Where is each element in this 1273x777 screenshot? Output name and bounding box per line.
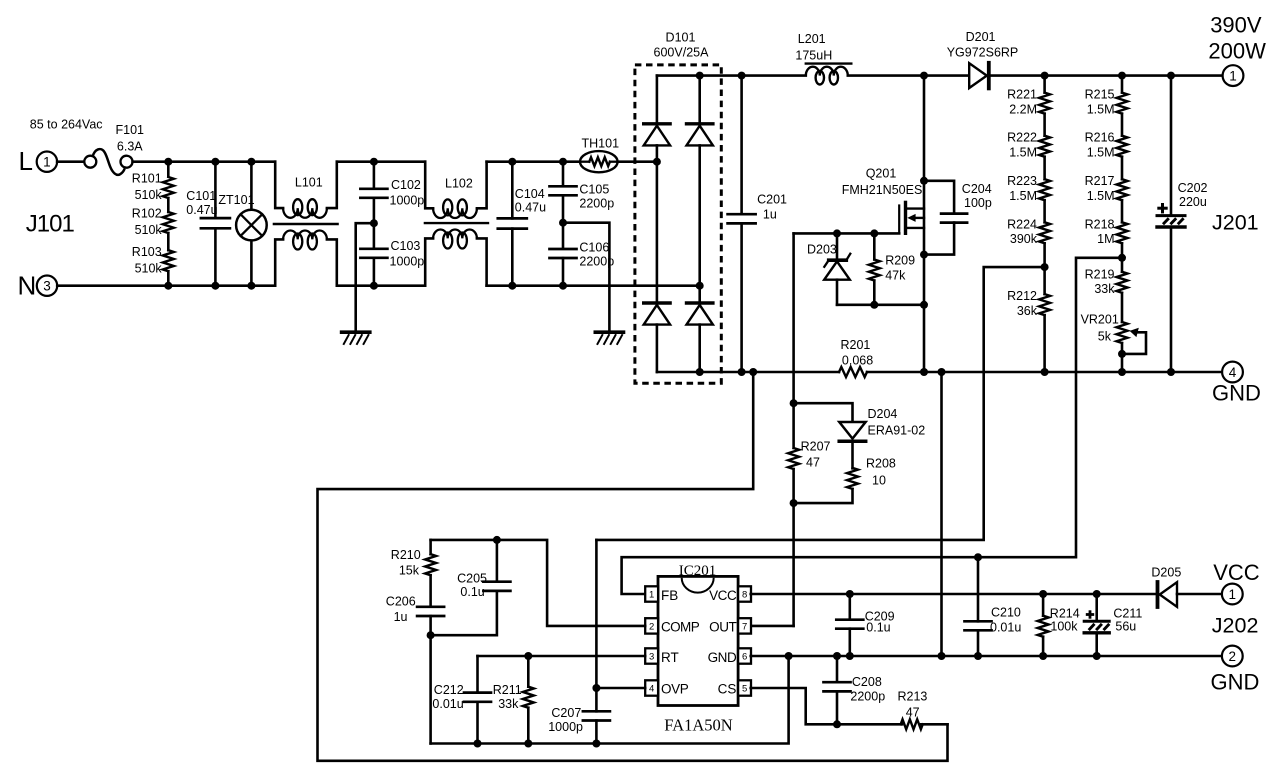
wire	[792, 233, 795, 448]
resistor R215	[1121, 76, 1124, 93]
capacitor C207	[595, 540, 598, 711]
IC pin 5 CS	[738, 680, 751, 695]
node	[833, 652, 841, 660]
svg-text:8: 8	[742, 589, 747, 600]
resistor R101	[167, 162, 170, 177]
svg-text:N: N	[18, 271, 37, 301]
svg-text:ZT101: ZT101	[218, 193, 254, 207]
IC pin 8 VCC	[738, 586, 751, 601]
svg-text:R223: R223	[1007, 174, 1037, 188]
svg-text:D205: D205	[1151, 566, 1181, 580]
svg-text:5: 5	[742, 683, 747, 694]
diode D101b	[687, 122, 713, 125]
wire	[656, 325, 659, 372]
node	[920, 251, 928, 259]
svg-text:1.5M: 1.5M	[1087, 102, 1115, 116]
svg-text:D203: D203	[807, 243, 837, 257]
svg-text:1000p: 1000p	[390, 194, 425, 208]
wire CS	[751, 688, 902, 724]
node	[920, 301, 928, 309]
wire	[698, 145, 701, 301]
svg-text:Q201: Q201	[866, 167, 897, 181]
svg-text:0.1u: 0.1u	[866, 620, 890, 634]
svg-text:0.01u: 0.01u	[432, 697, 463, 711]
svg-text:175uH: 175uH	[795, 49, 832, 63]
wire	[698, 76, 701, 123]
svg-text:0.01u: 0.01u	[990, 621, 1021, 635]
diode D101d	[687, 301, 713, 304]
node	[1118, 368, 1126, 376]
diode D101c	[644, 301, 670, 304]
node	[785, 652, 793, 660]
terminal J202 pin 2	[1222, 646, 1243, 667]
svg-text:R101: R101	[132, 172, 162, 186]
resistor R208	[847, 468, 858, 489]
svg-text:YG972S6RP: YG972S6RP	[947, 46, 1019, 60]
svg-text:OVP: OVP	[661, 681, 689, 696]
svg-text:C212: C212	[434, 683, 464, 697]
wire	[1121, 293, 1124, 322]
svg-text:J101: J101	[26, 211, 75, 238]
svg-text:15k: 15k	[399, 564, 420, 578]
capacitor C205	[496, 540, 499, 582]
node	[696, 368, 704, 376]
svg-text:C103: C103	[391, 239, 421, 253]
wire gate	[794, 232, 900, 235]
wire	[657, 74, 806, 77]
svg-text:C206: C206	[386, 594, 416, 608]
svg-text:0.1u: 0.1u	[460, 585, 484, 599]
capacitor C201	[740, 76, 743, 215]
node	[592, 684, 600, 692]
svg-text:R201: R201	[841, 338, 871, 352]
svg-text:47k: 47k	[885, 268, 906, 282]
potentiometer VR201	[1117, 322, 1128, 343]
capacitor C106	[550, 248, 577, 251]
svg-text:33k: 33k	[498, 697, 519, 711]
diode D101a	[644, 122, 670, 125]
wire	[57, 284, 275, 287]
diode D205	[1160, 582, 1177, 607]
IC pin 2 COMP	[645, 618, 658, 633]
wire GND pin	[751, 655, 1223, 658]
svg-text:1.5M: 1.5M	[1087, 189, 1115, 203]
svg-text:ERA91-02: ERA91-02	[868, 424, 926, 438]
svg-text:R221: R221	[1007, 88, 1037, 102]
svg-text:1.5M: 1.5M	[1009, 189, 1037, 203]
terminal J101 pin 1	[37, 152, 57, 172]
node	[427, 631, 435, 639]
svg-text:D204: D204	[868, 407, 898, 421]
svg-text:390k: 390k	[1010, 232, 1038, 246]
svg-text:47: 47	[906, 705, 920, 719]
node	[592, 740, 600, 748]
svg-text:C207: C207	[551, 706, 581, 720]
svg-text:C208: C208	[852, 675, 882, 689]
capacitor C105	[559, 158, 567, 166]
wire	[618, 160, 657, 163]
node	[1167, 72, 1175, 80]
wire OVP	[596, 687, 645, 690]
node	[1041, 368, 1049, 376]
resistor R212	[1039, 294, 1050, 315]
svg-text:COMP: COMP	[661, 619, 700, 634]
svg-text:2: 2	[649, 621, 654, 632]
capacitor C211	[1095, 594, 1098, 621]
wire analog ground	[431, 656, 789, 744]
svg-text:R211: R211	[493, 683, 522, 697]
wire	[337, 160, 425, 163]
capacitor C202	[1170, 76, 1173, 216]
svg-text:J201: J201	[1212, 211, 1259, 235]
resistor R218	[1117, 222, 1128, 243]
IC pin 6 GND	[738, 648, 751, 663]
resistor R209	[873, 233, 876, 259]
node	[247, 282, 255, 290]
svg-text:D201: D201	[966, 30, 996, 44]
svg-text:GND: GND	[1211, 670, 1260, 695]
svg-text:85 to 264Vac: 85 to 264Vac	[30, 118, 103, 132]
wire	[356, 223, 374, 332]
wire	[563, 223, 609, 333]
svg-text:R217: R217	[1085, 174, 1115, 188]
wire OVP sense	[596, 267, 1044, 540]
wire	[1043, 315, 1046, 372]
svg-text:R219: R219	[1085, 267, 1115, 281]
svg-text:FB: FB	[661, 588, 678, 603]
node	[1093, 590, 1101, 598]
svg-text:C204: C204	[962, 182, 992, 196]
node	[790, 399, 798, 407]
svg-text:R212: R212	[1007, 289, 1037, 303]
capacitor C212	[476, 656, 479, 693]
node	[1118, 254, 1126, 262]
node	[749, 368, 757, 376]
wire	[656, 145, 659, 301]
node	[211, 158, 219, 166]
fuse F101	[84, 156, 96, 168]
node	[846, 590, 854, 598]
wire	[923, 76, 926, 372]
node	[653, 158, 661, 166]
IC pin 1 FB	[645, 586, 658, 601]
resistor R213	[901, 719, 923, 729]
svg-text:L101: L101	[295, 175, 323, 189]
node	[1039, 590, 1047, 598]
ground	[342, 330, 370, 334]
svg-text:L102: L102	[445, 176, 473, 190]
svg-text:1.5M: 1.5M	[1087, 146, 1115, 160]
svg-text:10: 10	[872, 473, 886, 487]
svg-text:200W: 200W	[1208, 38, 1266, 63]
transistor Q201	[904, 202, 907, 233]
svg-text:1: 1	[43, 155, 51, 170]
svg-text:C210: C210	[991, 605, 1021, 619]
svg-text:C202: C202	[1178, 181, 1208, 195]
svg-text:33k: 33k	[1094, 282, 1115, 296]
svg-text:4: 4	[649, 683, 654, 694]
svg-text:GND: GND	[708, 650, 737, 665]
node	[846, 652, 854, 660]
node	[833, 229, 841, 237]
varistor ZT101	[250, 162, 253, 210]
node	[1041, 72, 1049, 80]
resistor R222	[1039, 136, 1050, 157]
svg-text:C211: C211	[1113, 607, 1142, 621]
svg-text:R103: R103	[132, 245, 162, 259]
svg-text:R216: R216	[1085, 131, 1115, 145]
zener diode D203	[836, 233, 839, 258]
svg-text:1000p: 1000p	[548, 720, 583, 734]
wire	[167, 198, 170, 212]
wire	[373, 198, 376, 248]
node	[1118, 350, 1126, 358]
wire	[1121, 200, 1124, 222]
node	[164, 282, 172, 290]
terminal J202 pin 1	[1222, 584, 1243, 605]
resistor R216	[1117, 136, 1128, 157]
wire	[991, 74, 1223, 77]
wire	[487, 160, 580, 163]
wire	[940, 372, 943, 656]
terminal J201 pin 4	[1222, 362, 1243, 383]
svg-text:RT: RT	[661, 650, 679, 665]
svg-text:1: 1	[1229, 587, 1237, 602]
svg-text:2: 2	[1229, 649, 1237, 664]
wire	[657, 371, 839, 374]
capacitor C103	[360, 247, 387, 250]
IC pin 4 OVP	[645, 680, 658, 695]
svg-text:R208: R208	[866, 457, 896, 471]
svg-text:R224: R224	[1007, 217, 1037, 231]
wire	[867, 371, 1223, 374]
wire	[337, 284, 425, 287]
node	[738, 368, 746, 376]
capacitor C102	[370, 158, 378, 166]
svg-text:510k: 510k	[135, 188, 163, 202]
node	[938, 368, 946, 376]
svg-text:R209: R209	[885, 253, 915, 267]
resistor R207	[788, 448, 799, 469]
node	[474, 740, 482, 748]
node	[1167, 368, 1175, 376]
node	[370, 219, 378, 227]
svg-text:1000p: 1000p	[390, 255, 425, 269]
wire	[133, 160, 276, 163]
node	[870, 229, 878, 237]
thermistor TH101	[580, 151, 618, 172]
svg-text:R207: R207	[801, 439, 831, 453]
wire FB sense	[622, 258, 1122, 594]
wire	[1043, 243, 1046, 294]
node	[920, 72, 928, 80]
node	[1118, 72, 1126, 80]
node	[247, 158, 255, 166]
wire OUT riser	[792, 503, 795, 626]
capacitor C204	[924, 181, 954, 214]
svg-text:C205: C205	[457, 571, 487, 585]
capacitor C210	[977, 557, 980, 621]
node	[938, 652, 946, 660]
capacitor C208	[836, 656, 839, 682]
wire	[167, 233, 170, 250]
wire	[656, 76, 659, 123]
resistor R224	[1039, 222, 1050, 243]
wire	[848, 74, 969, 77]
svg-text:47: 47	[806, 455, 820, 469]
wire	[698, 325, 701, 372]
svg-text:D101: D101	[666, 31, 696, 45]
svg-text:6.3A: 6.3A	[117, 140, 143, 154]
wire	[837, 303, 924, 306]
resistor R217	[1117, 179, 1128, 200]
node	[493, 536, 501, 544]
svg-text:R218: R218	[1085, 217, 1115, 231]
svg-text:R102: R102	[132, 207, 162, 221]
svg-text:2200p: 2200p	[850, 689, 885, 703]
node	[1093, 652, 1101, 660]
wire RT	[478, 655, 646, 658]
svg-text:C201: C201	[757, 193, 787, 207]
node	[1041, 263, 1049, 271]
svg-text:3: 3	[649, 651, 654, 662]
node	[164, 158, 172, 166]
wire COMP	[431, 540, 646, 626]
svg-text:R213: R213	[898, 689, 928, 703]
node	[1039, 652, 1047, 660]
svg-text:R222: R222	[1007, 131, 1037, 145]
svg-text:VR201: VR201	[1081, 313, 1119, 327]
svg-text:C105: C105	[579, 183, 609, 197]
IC U201 body	[658, 576, 738, 705]
node	[974, 652, 982, 660]
wire	[57, 160, 84, 163]
svg-text:R210: R210	[391, 548, 421, 562]
node	[211, 282, 219, 290]
svg-text:390V: 390V	[1210, 13, 1262, 38]
svg-text:CS: CS	[718, 681, 737, 696]
node	[870, 301, 878, 309]
wire VCC	[751, 593, 1156, 596]
svg-text:1.5M: 1.5M	[1009, 146, 1037, 160]
wire CS ground loop	[318, 372, 948, 761]
svg-text:1u: 1u	[763, 208, 777, 222]
svg-text:L: L	[19, 146, 33, 176]
node	[833, 720, 841, 728]
terminal J101 pin 3	[37, 276, 57, 296]
capacitor C206	[417, 605, 444, 608]
wire	[487, 284, 700, 287]
diode D204	[794, 403, 853, 422]
svg-text:220u: 220u	[1179, 195, 1207, 209]
svg-text:3: 3	[43, 279, 51, 294]
resistor R219	[1117, 272, 1128, 293]
svg-text:600V/25A: 600V/25A	[654, 46, 710, 60]
svg-text:FMH21N50ES: FMH21N50ES	[842, 183, 923, 197]
svg-text:C104: C104	[515, 187, 545, 201]
node	[696, 282, 704, 290]
svg-text:100k: 100k	[1050, 620, 1078, 634]
resistor R211	[527, 656, 530, 687]
svg-text:1: 1	[649, 589, 654, 600]
node	[738, 72, 746, 80]
wire	[1043, 200, 1046, 222]
svg-text:FA1A50N: FA1A50N	[664, 716, 733, 735]
node	[790, 499, 798, 507]
svg-text:1M: 1M	[1097, 232, 1114, 246]
svg-text:GND: GND	[1212, 381, 1261, 406]
svg-text:7: 7	[742, 621, 747, 632]
svg-text:36k: 36k	[1017, 304, 1038, 318]
wire	[1121, 243, 1124, 271]
svg-text:1: 1	[1229, 69, 1237, 84]
svg-text:6: 6	[742, 651, 747, 662]
wire	[921, 723, 947, 726]
wire	[167, 271, 170, 286]
svg-text:4: 4	[1229, 365, 1237, 380]
inductor L102	[425, 162, 433, 209]
svg-text:100p: 100p	[964, 196, 992, 210]
wire	[1121, 343, 1124, 372]
resistor R102	[163, 212, 174, 233]
wire	[1043, 114, 1046, 136]
svg-text:2200p: 2200p	[579, 196, 614, 210]
ground	[595, 330, 623, 334]
wire	[429, 616, 432, 744]
svg-text:R215: R215	[1085, 88, 1115, 102]
svg-text:C106: C106	[579, 240, 609, 254]
svg-text:1u: 1u	[394, 610, 408, 624]
wire	[1121, 114, 1124, 136]
node	[559, 219, 567, 227]
terminal J201 pin 1	[1223, 65, 1244, 86]
svg-text:5k: 5k	[1098, 329, 1112, 343]
resistor R201	[839, 367, 867, 377]
svg-text:L201: L201	[798, 32, 826, 46]
node	[920, 368, 928, 376]
svg-text:510k: 510k	[135, 262, 163, 276]
svg-text:0.47u: 0.47u	[186, 203, 217, 217]
capacitor C101	[214, 162, 217, 219]
svg-text:56u: 56u	[1115, 620, 1136, 634]
svg-text:VCC: VCC	[709, 588, 737, 603]
wire	[1043, 157, 1046, 180]
resistor R221	[1043, 76, 1046, 93]
resistor R223	[1039, 179, 1050, 200]
svg-text:TH101: TH101	[582, 137, 620, 151]
wire	[429, 575, 432, 606]
inductor L101	[275, 162, 283, 208]
node	[524, 740, 532, 748]
wire	[751, 625, 794, 628]
svg-text:510k: 510k	[135, 223, 163, 237]
node	[920, 177, 928, 185]
resistor R103	[163, 250, 174, 271]
wire	[562, 195, 565, 248]
diode D201	[969, 63, 987, 88]
svg-text:0.068: 0.068	[842, 353, 873, 367]
resistor R214	[1042, 594, 1045, 616]
svg-text:C101: C101	[186, 189, 216, 203]
svg-text:F101: F101	[116, 123, 145, 137]
bridge rectifier D101 box	[635, 65, 721, 383]
node	[524, 652, 532, 660]
node	[696, 72, 704, 80]
node	[974, 553, 982, 561]
inductor L201	[806, 67, 848, 76]
svg-text:R214: R214	[1050, 607, 1080, 621]
IC pin 7 OUT	[738, 618, 751, 633]
